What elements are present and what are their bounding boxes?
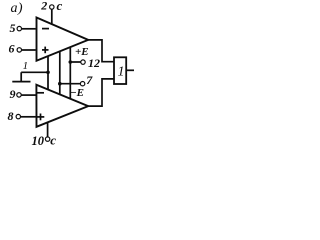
- svg-text:−E: −E: [70, 87, 84, 99]
- op-amp U1 triangle: [37, 18, 89, 61]
- wire input 5: [21, 28, 35, 30]
- svg-text:1: 1: [118, 64, 125, 79]
- plus sign U1: [42, 49, 49, 51]
- svg-text:2: 2: [40, 0, 47, 12]
- node +E junction: [69, 60, 73, 64]
- node -E junction: [58, 82, 62, 86]
- minus sign U1: [42, 28, 49, 30]
- wire U2 output: [88, 79, 114, 106]
- wire pin 10 from op-amp U2: [47, 122, 49, 137]
- svg-text:c: c: [57, 0, 63, 13]
- op-amp U2 triangle: [36, 85, 88, 127]
- svg-text:12: 12: [88, 56, 100, 70]
- wire strobe 1: [21, 71, 48, 73]
- wire -E rail: [59, 51, 61, 94]
- wire strobe bus: [47, 56, 49, 90]
- svg-text:10: 10: [32, 134, 45, 148]
- terminal 10 circle: [45, 137, 49, 141]
- terminal 9 circle: [17, 93, 21, 97]
- svg-text:7: 7: [86, 73, 93, 87]
- wire input 9: [21, 94, 35, 96]
- terminal 1 stem: [20, 72, 22, 81]
- wire input 6: [21, 49, 35, 51]
- terminal 7 circle: [80, 82, 84, 86]
- terminal 2 circle: [50, 5, 54, 9]
- plus sign U2: [37, 116, 45, 118]
- wire block output: [127, 69, 135, 71]
- svg-text:8: 8: [8, 109, 14, 123]
- logic block DD1: [114, 57, 126, 84]
- svg-text:6: 6: [9, 42, 15, 56]
- minus sign U2: [37, 92, 44, 94]
- svg-text:c: c: [50, 133, 56, 148]
- svg-text:+E: +E: [75, 46, 89, 58]
- node strobe junction: [46, 71, 50, 75]
- wire +E tap: [70, 61, 81, 63]
- wire pin 2 to op-amp U1: [51, 9, 53, 24]
- terminal 12 circle: [81, 60, 85, 64]
- svg-text:а): а): [11, 1, 23, 16]
- terminal 5 circle: [17, 26, 21, 30]
- wire -E tap: [60, 83, 81, 85]
- terminal 1 bar: [12, 81, 30, 83]
- svg-text:9: 9: [10, 87, 16, 101]
- svg-text:1: 1: [23, 60, 29, 72]
- wire U1 output: [88, 40, 114, 62]
- wire input 8: [20, 116, 35, 118]
- svg-text:5: 5: [10, 21, 16, 35]
- wire +E rail: [69, 47, 71, 99]
- terminal 8 circle: [16, 114, 20, 118]
- terminal 6 circle: [17, 48, 21, 52]
